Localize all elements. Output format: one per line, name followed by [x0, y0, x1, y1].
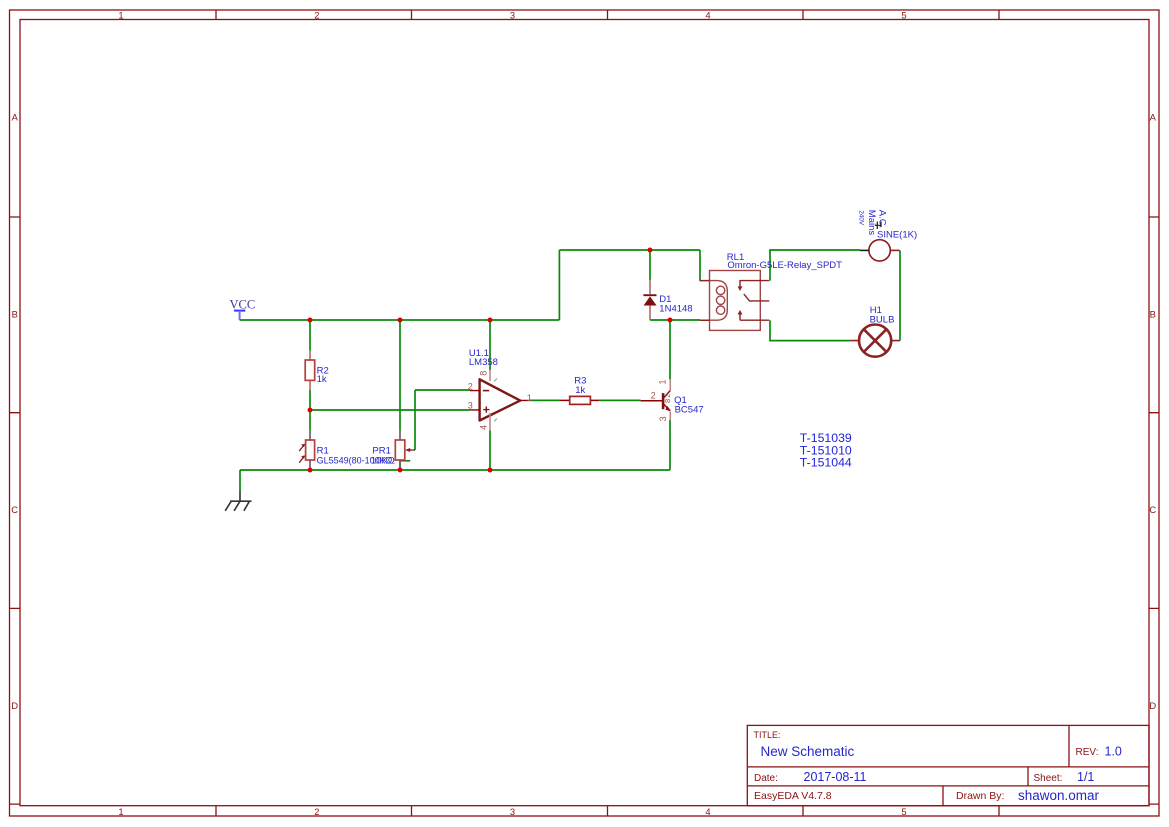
relay RL1 Omron-G5LE-Relay_SPDT	[700, 252, 843, 331]
svg-text:VCC: VCC	[230, 298, 256, 312]
wire node to R1 top	[309, 410, 311, 430]
svg-text:5: 5	[901, 10, 906, 21]
op-amp U1.1 LM358	[468, 348, 532, 431]
junction node D1 top	[648, 248, 653, 253]
wire relay coil top drop	[699, 250, 701, 281]
wire ground drop	[239, 470, 241, 491]
wire D1 bottom to relay coil	[650, 319, 700, 321]
svg-text:1k: 1k	[317, 374, 327, 385]
svg-text:Omron-G5LE-Relay_SPDT: Omron-G5LE-Relay_SPDT	[727, 260, 842, 271]
svg-text:C: C	[1149, 504, 1156, 515]
svg-text:1: 1	[118, 806, 123, 817]
wire R2 top	[309, 320, 311, 351]
svg-text:2: 2	[314, 806, 319, 817]
svg-text:1: 1	[118, 10, 123, 21]
ground	[225, 491, 251, 511]
svg-text:TITLE:: TITLE:	[754, 730, 781, 740]
svg-text:5: 5	[901, 806, 906, 817]
wire bulb to relay NC contact	[770, 320, 850, 340]
svg-text:Mains: Mains	[866, 210, 877, 236]
svg-text:BULB: BULB	[870, 315, 895, 326]
resistor R3	[560, 376, 599, 405]
svg-text:10KΩ: 10KΩ	[371, 455, 395, 466]
svg-text:A: A	[1150, 112, 1157, 123]
svg-text:4: 4	[478, 425, 488, 430]
junction node R2/R1/pin3	[308, 408, 313, 413]
svg-text:B: B	[1150, 308, 1156, 319]
svg-text:1N4148: 1N4148	[659, 303, 692, 314]
net stub ticks (U1)	[494, 379, 497, 422]
svg-text:REV:: REV:	[1076, 747, 1099, 758]
svg-text:T-151044: T-151044	[800, 456, 852, 470]
junction node R1 bottom	[308, 468, 313, 473]
junction node VCC/pin8	[488, 318, 493, 323]
svg-text:LM358: LM358	[469, 357, 498, 368]
svg-text:Sheet:: Sheet:	[1034, 773, 1063, 784]
free text T-numbers	[800, 431, 852, 470]
wire node to op-amp pin 3	[310, 409, 470, 411]
junction node pin4 rail	[488, 468, 493, 473]
svg-text:D: D	[11, 700, 18, 711]
svg-text:2: 2	[651, 391, 656, 401]
wire PR1 top	[399, 320, 401, 430]
wire R2 bottom to node	[309, 390, 311, 410]
svg-text:C: C	[11, 504, 18, 515]
junction node D1/collector	[668, 318, 673, 323]
junction node VCC/R2	[308, 318, 313, 323]
wire ground rail	[240, 469, 670, 471]
svg-text:2: 2	[663, 394, 672, 398]
svg-text:Date:: Date:	[754, 773, 778, 784]
svg-text:3: 3	[510, 10, 515, 21]
power flag VCC	[230, 298, 256, 321]
junction node PR1 bottom	[398, 468, 403, 473]
svg-text:4: 4	[705, 10, 710, 21]
wire D1 top	[649, 250, 651, 280]
wire PR1 bottom	[400, 461, 410, 470]
AC mains source	[857, 210, 917, 261]
svg-text:8: 8	[478, 371, 488, 376]
svg-text:4: 4	[705, 806, 710, 817]
wire Q1 collector	[669, 320, 671, 379]
wire VCC rail riser	[558, 250, 560, 320]
title block	[747, 725, 1149, 805]
svg-text:2: 2	[314, 10, 319, 21]
svg-text:EasyEDA V4.7.8: EasyEDA V4.7.8	[754, 790, 832, 802]
diode D1 1N4148	[643, 280, 692, 320]
svg-text:1.0: 1.0	[1105, 745, 1122, 759]
svg-text:A: A	[12, 112, 19, 123]
svg-text:Drawn By:: Drawn By:	[956, 790, 1004, 802]
svg-text:240V: 240V	[857, 210, 864, 226]
wire op-amp output to R3	[530, 399, 560, 401]
svg-text:3: 3	[468, 401, 473, 411]
svg-text:3: 3	[658, 416, 668, 421]
svg-text:shawon.omar: shawon.omar	[1018, 788, 1100, 803]
svg-text:2017-08-11: 2017-08-11	[804, 770, 867, 784]
wire top run to relay coil	[559, 249, 700, 251]
svg-text:1/1: 1/1	[1077, 770, 1094, 784]
transistor Q1 BC547	[641, 379, 704, 421]
wire op-amp pin 8	[489, 320, 491, 370]
bulb H1	[850, 305, 900, 357]
svg-text:B: B	[12, 308, 18, 319]
svg-text:1k: 1k	[575, 385, 585, 396]
svg-text:2: 2	[468, 382, 473, 392]
svg-text:D: D	[1149, 700, 1156, 711]
wire AC source to bulb	[899, 250, 901, 340]
svg-text:1: 1	[527, 393, 532, 403]
potentiometer PR1	[371, 430, 415, 470]
wire relay NO contact to AC source	[770, 250, 860, 281]
photoresistor R1	[299, 430, 392, 470]
resistor R2	[305, 351, 329, 390]
wire Q1 emitter to rail	[669, 420, 671, 470]
svg-text:1: 1	[658, 379, 668, 384]
wire wiper to op-amp pin 2	[415, 389, 470, 391]
svg-text:New Schematic: New Schematic	[761, 744, 855, 759]
polarity mark (AC source)	[875, 222, 882, 230]
svg-text:3: 3	[510, 806, 515, 817]
wire PR1 wiper vertical	[414, 390, 416, 450]
wire op-amp pin 4 to rail	[489, 431, 491, 471]
svg-text:BC547: BC547	[675, 405, 704, 416]
wire R3 to Q1 base	[599, 399, 640, 401]
wire VCC rail	[240, 319, 560, 321]
svg-text:8: 8	[663, 399, 672, 403]
junction node VCC/PR1	[398, 318, 403, 323]
svg-text:SINE(1K): SINE(1K)	[877, 230, 917, 241]
